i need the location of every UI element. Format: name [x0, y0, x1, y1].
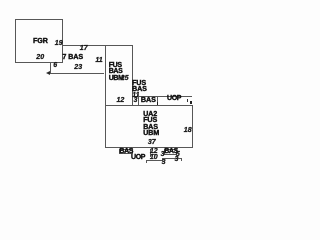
tick dot in UOP cell [190, 101, 192, 104]
dim 3 bottom center [162, 160, 166, 166]
dim 12 over main box [117, 98, 125, 104]
dim 10 bottom [150, 155, 158, 161]
dim 18 [184, 128, 192, 134]
left porch boxlet [119, 149, 133, 154]
dim 12 bottom [150, 149, 158, 155]
wire row divider x=157.2 [157, 96, 158, 105]
garage FGR box [15, 19, 63, 63]
dim 3 below 5 [175, 157, 179, 163]
wire bar between 12 and 10 [150, 154, 156, 155]
row BAS label [141, 97, 156, 103]
dim 23 [74, 65, 82, 71]
main story labels UA2/FUS/BAS/UBM [143, 111, 159, 137]
wire top of BAS wing [62, 45, 132, 46]
wire porch row top y=95.6 [138, 96, 193, 97]
dim 19 [55, 41, 63, 47]
wire step below FGR [50, 62, 51, 73]
dim 20 [36, 55, 44, 61]
UOP label bottom [131, 155, 145, 161]
dim 6 [53, 63, 57, 69]
wire small v left of 12/10 [150, 149, 151, 157]
wire row left edge x=137.8 [138, 94, 139, 105]
FGR label [33, 38, 48, 44]
dim 25 [121, 76, 129, 82]
arrowhead [46, 71, 50, 75]
dim 17 [80, 46, 88, 52]
right boxlet BAS label [164, 149, 178, 155]
dim 11 mid [132, 93, 139, 99]
dim 3 left of right boxlet [161, 152, 165, 158]
main house box [105, 105, 194, 148]
wire left hook [146, 160, 147, 163]
right porch boxlet [164, 149, 177, 154]
dim 37 [148, 140, 156, 146]
dim 5 [176, 152, 180, 158]
wire hook down x=180.6 [181, 158, 182, 161]
tick after BAS [157, 102, 158, 105]
BAS wing label [62, 54, 83, 60]
north wing story labels FUS/BAS/UBM [109, 63, 124, 83]
mid stack FUS/BAS [132, 80, 147, 93]
wire bottom of wing y=72.6 [48, 73, 104, 74]
wire right edge of wing x=132 [132, 45, 133, 106]
wire right porch line y=157.9 [162, 158, 181, 159]
tick comma in UOP cell [187, 99, 189, 102]
row UOP label [167, 96, 181, 102]
wire step up x=161.8 [162, 158, 163, 162]
dim 3 mid [134, 98, 138, 104]
dim 11 [95, 58, 102, 64]
wire house west edge x=104.5 [105, 45, 106, 148]
wire bottom porch line y=160.5 [146, 160, 163, 161]
left boxlet BAS label [119, 149, 133, 155]
